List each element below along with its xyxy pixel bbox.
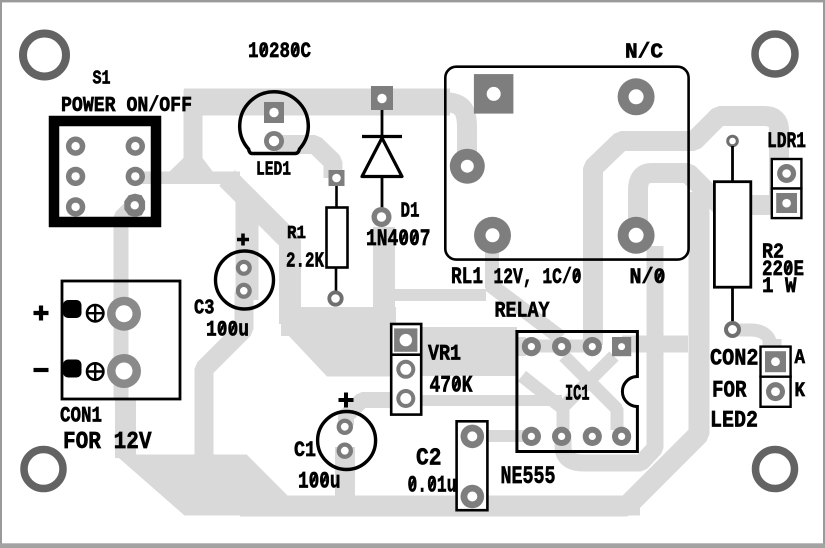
wire junction flare <box>169 158 213 172</box>
IC1 pad top1 <box>522 337 541 356</box>
IC1 pad bottom3 <box>583 427 602 446</box>
wire IC1 interior diagonal pad4-pad2 <box>563 356 614 430</box>
D1 bottom pad <box>372 207 392 227</box>
CON2 square pad A <box>765 351 786 372</box>
LDR1 square pad <box>776 193 797 213</box>
svg-text:C1: C1 <box>294 437 316 463</box>
wire RL1 N/O down to inner rail and IC1 pad <box>563 246 655 463</box>
S1 pad row1 left <box>66 137 85 156</box>
CON1 pad minus <box>107 354 141 388</box>
svg-text:NE555: NE555 <box>501 462 556 491</box>
resistor R2 top pad <box>728 136 738 146</box>
CON1 wire blob minus <box>63 360 82 378</box>
mounting hole bottom-right <box>756 450 795 489</box>
RL1 square pad <box>474 74 514 114</box>
wire VR1 bottom pad right to IC1 interior <box>420 395 562 406</box>
minus sign CON1 <box>34 368 49 372</box>
CON1 pad plus <box>107 297 141 331</box>
CON1 screw plus <box>87 305 103 321</box>
C2 pad top <box>461 425 485 449</box>
wire diagonal junction down to x290 vertical <box>227 178 290 324</box>
mounting hole top-left <box>23 34 66 77</box>
wire IC1 pad3 up through RL1 to CON2 side <box>593 116 779 345</box>
R1 top lead <box>335 186 338 208</box>
wire IC1 interior diagonal pad2-pad4 <box>564 356 617 430</box>
VR1 middle pad <box>396 360 415 379</box>
R1 body <box>327 208 348 268</box>
wire RL1 N/O pad up to LDR1 bottom pad <box>638 173 786 240</box>
wire wide band H_C left of VR1 <box>281 307 396 336</box>
svg-text:1 W: 1 W <box>762 274 797 299</box>
IC1 pad bottom4 <box>612 427 631 446</box>
svg-text:N/C: N/C <box>625 42 663 65</box>
svg-text:RELAY: RELAY <box>495 299 551 324</box>
RL1 coil bottom-left pad <box>474 217 511 254</box>
VR1 bottom pad <box>396 389 415 408</box>
RL1 N/O pad <box>618 217 655 254</box>
border right <box>823 0 825 548</box>
S1 pad row3 left <box>66 197 85 216</box>
wire band H_E between VR1 and IC1 <box>391 327 517 376</box>
svg-text:D1: D1 <box>401 201 420 224</box>
D1 top lead <box>381 110 384 138</box>
R2 bottom lead <box>731 287 734 324</box>
svg-text:R1: R1 <box>287 223 306 244</box>
CON1 wire blob plus <box>63 300 82 318</box>
diode D1 top square pad <box>371 86 393 110</box>
wire C2 to IC1 bottom pad1 <box>474 430 530 442</box>
wire LED1 to R1 top pad <box>276 145 333 179</box>
svg-text:C2: C2 <box>416 446 442 473</box>
svg-text:LED1: LED1 <box>256 159 291 181</box>
S1 pad row1 right <box>126 137 145 156</box>
connector CON1 body <box>62 281 180 399</box>
C1 pad bottom <box>337 443 353 459</box>
LDR1 top cell <box>772 159 802 189</box>
slashed zero marks <box>220 43 791 490</box>
svg-text:K: K <box>795 380 806 403</box>
LDR1 bottom cell <box>772 189 802 219</box>
relay RL1 body <box>445 67 688 260</box>
wire chamfer from band to IC1 interior <box>522 376 561 407</box>
switch S1 frame <box>54 121 156 222</box>
capacitor C3 outline <box>216 251 274 309</box>
C3 pad top <box>236 260 252 276</box>
RL1 N/C pad <box>618 78 655 115</box>
R1 bottom lead <box>335 268 338 294</box>
svg-text:100u: 100u <box>206 317 249 343</box>
svg-text:VR1: VR1 <box>428 342 461 367</box>
CON2 cell K <box>761 377 791 407</box>
IC1 pad bottom1 <box>522 427 541 446</box>
S1 pad row2 right <box>126 167 145 186</box>
LED1 anode square pad <box>264 102 284 123</box>
svg-text:FOR: FOR <box>712 378 747 404</box>
wire IC1 interior top row connector <box>531 340 592 353</box>
R2 bottom pad <box>726 323 739 336</box>
wire horizontal to S1 middle-right pad <box>135 172 240 185</box>
svg-text:POWER ON/OFF: POWER ON/OFF <box>61 95 192 118</box>
D1 bottom lead <box>381 177 384 211</box>
S1 pad row2 left <box>66 167 85 186</box>
R2 top lead <box>731 146 734 182</box>
CON1 screw minus <box>87 363 103 379</box>
svg-text:2.2K: 2.2K <box>286 251 324 274</box>
wire D1 cathode vertical <box>373 227 395 318</box>
IC1 pad top2 <box>552 337 571 356</box>
resistor R1 top square pad <box>329 170 345 186</box>
wire vertical from top band down to S1 junction <box>184 90 203 162</box>
C3 pad bottom <box>236 283 252 299</box>
wire R2 bottom pad to CON2 A pad <box>734 330 772 358</box>
preset VR1 body <box>391 324 421 415</box>
svg-text:CON1: CON1 <box>60 404 102 429</box>
wire vertical x697 down to bottom rail <box>240 192 699 506</box>
mounting hole bottom-left <box>24 450 63 489</box>
wire wide block below H_C to VR1 <box>288 335 398 377</box>
svg-text:CON2: CON2 <box>710 346 759 372</box>
wire C1 ground down <box>335 447 355 500</box>
wire S1 pad to CON1 vertical <box>121 204 134 400</box>
CON2 ring pad K <box>766 382 785 401</box>
wire CON1 to ground plane <box>115 398 136 458</box>
LED1 cathode pad <box>264 131 284 151</box>
IC1 pad top3 <box>583 337 602 356</box>
C1 pad top <box>337 419 353 435</box>
svg-text:RL1: RL1 <box>451 264 483 290</box>
wire bottom ground plane blob <box>115 455 640 516</box>
wire IC1 pad4 to x697 vertical <box>622 336 688 353</box>
RL1 left-middle pad <box>450 149 485 184</box>
svg-text:1N4007: 1N4007 <box>366 226 431 252</box>
plus sign CON1 <box>34 306 49 321</box>
TRACES <box>49 90 786 516</box>
border left <box>0 0 2 548</box>
svg-text:N/0: N/0 <box>630 265 666 290</box>
svg-text:LED2: LED2 <box>710 408 758 435</box>
svg-text:S1: S1 <box>93 68 111 90</box>
IC U1 NE555 body <box>517 332 638 452</box>
LDR1 ring pad <box>777 164 796 183</box>
svg-text:IC1: IC1 <box>565 382 590 407</box>
IC1 pad bottom2 <box>552 427 571 446</box>
svg-text:A: A <box>795 347 806 370</box>
wire D1 to relay coil horizontal <box>388 289 486 301</box>
C2 pad bottom <box>461 485 485 509</box>
D1 cathode bar <box>362 135 402 138</box>
wire vertical through C3 <box>236 194 259 300</box>
switch S1 body fill <box>49 116 161 227</box>
svg-text:470K: 470K <box>430 373 473 399</box>
border top <box>0 0 825 2</box>
CON2 cell A <box>761 347 791 377</box>
LED1 outline <box>240 92 309 154</box>
D1 triangle <box>362 138 402 177</box>
S1 pad row3 right octagonal <box>124 194 145 217</box>
wire widen CON2 A drop <box>763 339 782 348</box>
IC1 pad top4 square <box>612 337 631 356</box>
plus sign C3 <box>237 234 249 246</box>
wire VR1 bottom pad to C1 plus <box>346 400 392 425</box>
svg-text:FOR 12V: FOR 12V <box>63 429 152 456</box>
wire relay coil to IC1 pin diagonal <box>489 284 561 338</box>
plus sign C1 <box>339 393 354 408</box>
VR1 divider <box>391 353 421 356</box>
wire relay coil pad down <box>485 248 499 288</box>
wire stub to IC1 top pad1 <box>516 337 526 356</box>
wire top +12V band <box>184 89 450 116</box>
R2 body <box>714 182 750 288</box>
svg-text:100u: 100u <box>298 469 341 495</box>
capacitor C1 outline <box>318 412 376 470</box>
wire C3 ground down-left to bottom plane <box>204 292 244 458</box>
svg-text:10280C: 10280C <box>248 38 311 64</box>
wire into RL1 left-middle pad <box>442 102 467 166</box>
svg-text:LDR1: LDR1 <box>767 129 806 154</box>
VR1 square pad <box>394 328 417 351</box>
capacitor C2 body <box>457 421 488 510</box>
mounting hole top-right <box>755 34 795 74</box>
svg-text:12V, 1C/0: 12V, 1C/0 <box>494 265 582 290</box>
border bottom bar <box>0 543 825 548</box>
R1 bottom pad <box>329 292 341 304</box>
